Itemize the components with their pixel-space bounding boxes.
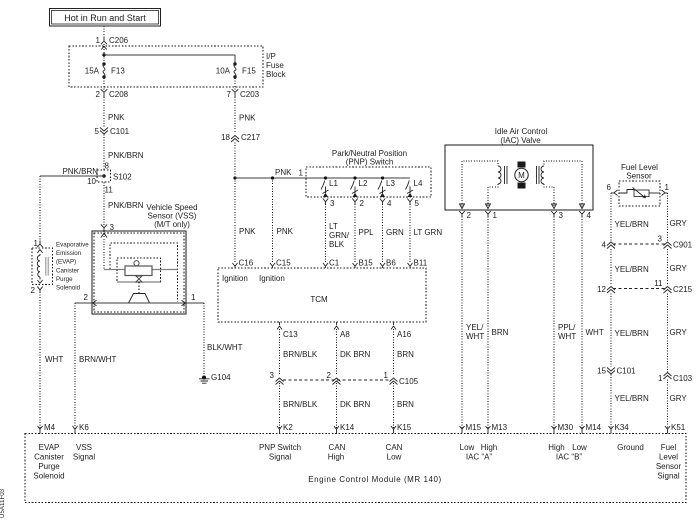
fuel level sensor box (619, 181, 660, 206)
VSS pickup element (125, 261, 152, 276)
svg-text:Fuse: Fuse (266, 61, 284, 70)
svg-text:C101: C101 (617, 367, 637, 376)
svg-text:Sensor: Sensor (656, 462, 682, 471)
svg-text:IAC “B”: IAC “B” (556, 453, 583, 462)
connector C206 pin 1 (96, 36, 129, 50)
svg-text:Idle Air Control: Idle Air Control (495, 127, 548, 136)
TCM pin C1 (323, 259, 340, 269)
IAC pin 2 (459, 211, 471, 220)
svg-text:LT GRN: LT GRN (414, 228, 443, 237)
svg-text:G104: G104 (211, 373, 231, 382)
svg-text:YEL/BRN: YEL/BRN (615, 329, 649, 338)
svg-text:(M/T only): (M/T only) (154, 220, 190, 229)
wire YEL/WHT IAC 2 to M15 (462, 217, 484, 430)
svg-text:(PNP) Switch: (PNP) Switch (346, 158, 394, 167)
svg-text:High: High (481, 443, 497, 452)
ground G104 (199, 373, 231, 383)
svg-text:BRN/BLK: BRN/BLK (283, 400, 318, 409)
wire PNK/BRN below C101 (104, 135, 144, 171)
wire BRN/BLK C13 to K2 (280, 329, 318, 429)
svg-text:3: 3 (658, 235, 663, 244)
wire branch S102 to EVAP solenoid (40, 167, 104, 244)
wire DK BRN A8 to K14 (337, 329, 371, 429)
svg-text:C101: C101 (110, 127, 130, 136)
C105 pin 3 (270, 371, 284, 385)
IAC right winding circuit (537, 161, 585, 209)
svg-text:PNK/BRN: PNK/BRN (108, 151, 144, 160)
svg-text:Purge: Purge (56, 276, 73, 283)
PNP pin 4 (380, 199, 392, 209)
svg-text:YEL/BRN: YEL/BRN (615, 265, 649, 274)
ECM label CAN High (328, 443, 346, 462)
svg-text:12: 12 (597, 285, 606, 294)
svg-text:1: 1 (191, 293, 196, 302)
svg-text:WHT: WHT (45, 355, 63, 364)
wire PNK below C208 (104, 97, 125, 127)
wire F15 to C203 (234, 78, 236, 91)
svg-text:Emission: Emission (56, 250, 82, 257)
svg-text:Hot in Run and Start: Hot in Run and Start (64, 13, 146, 23)
TCM pin B6 (380, 259, 396, 269)
Park/Neutral Position (PNP) Switch title (332, 149, 407, 167)
svg-text:PNK: PNK (108, 113, 125, 122)
ECM pin K14 (334, 423, 355, 434)
wire BRN IAC 1 to M13 (488, 217, 509, 430)
svg-text:K2: K2 (283, 423, 293, 432)
svg-text:M30: M30 (558, 423, 574, 432)
svg-text:PPL: PPL (359, 228, 375, 237)
C215 pin 11 (654, 279, 692, 294)
VSS bottom wire pins 2 and 1 (84, 293, 196, 306)
svg-text:(EVAP): (EVAP) (56, 259, 76, 266)
VSS sensor supply line (104, 269, 178, 271)
svg-text:C901: C901 (673, 241, 693, 250)
svg-text:BRN: BRN (492, 328, 509, 337)
VSS pin 3 (101, 223, 115, 232)
C901 pin 3 (658, 235, 693, 250)
fuel sensor pin 6 (607, 183, 618, 196)
svg-text:WHT: WHT (586, 328, 604, 337)
svg-text:IAC “A”: IAC “A” (466, 453, 493, 462)
node junction to C15 branch (271, 176, 274, 179)
ECM label EVAP Canister Purge Solenoid (33, 443, 64, 481)
ECM label Ground (617, 443, 644, 452)
svg-text:WHT: WHT (466, 332, 484, 341)
svg-text:4: 4 (587, 211, 592, 220)
svg-text:Ignition: Ignition (222, 274, 248, 283)
ECM label High Low IAC B (548, 443, 587, 462)
idle air control IAC valve box (445, 145, 593, 210)
ECM pin K15 (391, 423, 412, 434)
connector C215 row (613, 288, 665, 290)
svg-text:C13: C13 (283, 330, 298, 339)
svg-text:GRN/: GRN/ (329, 231, 350, 240)
connector C101 pin 5 (95, 127, 130, 136)
wire YEL/BRN C101 to K34 (611, 375, 649, 430)
fuel sensor pin 1 (662, 183, 670, 196)
switch L4 (406, 179, 423, 197)
wire GRY C103 to K51 (668, 380, 688, 430)
svg-text:C103: C103 (673, 374, 693, 383)
VSS pickup dashed box (117, 258, 161, 282)
wire PNK to PNP switch (235, 168, 410, 178)
svg-text:BRN: BRN (397, 400, 414, 409)
svg-text:Block: Block (266, 70, 287, 79)
wire VSS pin2 to ECM K6 (75, 303, 116, 429)
svg-text:BRN/WHT: BRN/WHT (79, 355, 116, 364)
VSS rotor trapezoid (129, 294, 150, 304)
wire PNK to TCM C16 (235, 178, 256, 263)
svg-text:6: 6 (607, 183, 612, 192)
IAC pin 4 (579, 211, 591, 220)
svg-text:DK BRN: DK BRN (340, 350, 370, 359)
Idle Air Control (IAC) Valve title (495, 127, 548, 145)
svg-text:EVAP: EVAP (39, 443, 60, 452)
svg-text:PNK: PNK (239, 227, 256, 236)
svg-text:C215: C215 (673, 285, 693, 294)
svg-text:15A: 15A (85, 67, 100, 76)
ECM pin M13 (486, 423, 508, 434)
svg-text:GRY: GRY (670, 264, 688, 273)
ECM pin M14 (580, 423, 602, 434)
wire from Hot box to C206 (103, 26, 105, 38)
svg-text:5: 5 (415, 199, 420, 208)
svg-text:LT: LT (329, 222, 338, 231)
svg-text:PNK: PNK (239, 114, 256, 123)
ECM title Engine Control Module (MR 140) (308, 475, 441, 484)
svg-text:C15: C15 (276, 259, 291, 268)
svg-text:L4: L4 (414, 179, 423, 188)
svg-text:M14: M14 (586, 423, 602, 432)
connector C208 pin 2 (96, 89, 129, 99)
TCM pin B11 (408, 259, 428, 269)
svg-text:PNK: PNK (275, 168, 292, 177)
svg-text:1: 1 (658, 374, 663, 383)
wire junction to F13 (103, 55, 105, 63)
svg-text:PPL/: PPL/ (558, 323, 576, 332)
ECM label Low High IAC A (460, 443, 498, 462)
svg-text:CAN: CAN (386, 443, 403, 452)
svg-text:BLK: BLK (329, 240, 345, 249)
svg-text:(IAC) Valve: (IAC) Valve (500, 136, 541, 145)
svg-text:A8: A8 (340, 330, 350, 339)
switch L1 (321, 176, 338, 197)
svg-text:F15: F15 (242, 67, 256, 76)
C105 pin 1 (384, 371, 419, 386)
svg-text:4: 4 (387, 199, 392, 208)
ECM pin K2 (277, 423, 293, 434)
wire VSS pin1 BLK/WHT to ground (186, 303, 243, 375)
svg-text:2: 2 (467, 211, 472, 220)
svg-text:C208: C208 (109, 90, 129, 99)
PNP pin 5 (407, 199, 419, 209)
svg-text:1: 1 (384, 371, 389, 380)
IAC left winding circuit (460, 161, 508, 209)
fuse F15 10A (216, 62, 257, 78)
C105 pin 2 (327, 371, 341, 385)
svg-text:Purge: Purge (38, 462, 60, 471)
svg-text:18: 18 (221, 133, 230, 142)
ECM pin K6 (73, 423, 90, 434)
wire YEL/BRN C215 to C101 (611, 294, 649, 368)
svg-text:L2: L2 (359, 179, 368, 188)
svg-text:Low: Low (572, 443, 587, 452)
svg-text:10A: 10A (216, 67, 231, 76)
svg-text:GRY: GRY (670, 328, 688, 337)
svg-text:M15: M15 (466, 423, 482, 432)
PNP switch dashed box (306, 167, 431, 197)
svg-text:K15: K15 (397, 423, 412, 432)
wire C206 into fuse block (103, 44, 105, 54)
connector C203 pin 7 (227, 89, 260, 99)
svg-text:Solenoid: Solenoid (33, 472, 64, 481)
wire LT GRN/BLK to TCM C1 (326, 204, 350, 263)
wire bus inside fuse block to F15 (104, 55, 235, 63)
svg-text:A16: A16 (397, 330, 412, 339)
svg-text:BLK/WHT: BLK/WHT (207, 343, 243, 352)
TCM box (218, 268, 426, 322)
svg-text:Low: Low (460, 443, 475, 452)
svg-text:11: 11 (654, 279, 663, 288)
connector C103 pin 1 (658, 373, 693, 384)
wire WHT IAC 4 to M14 (582, 217, 604, 430)
svg-text:YEL/: YEL/ (466, 323, 484, 332)
svg-text:7: 7 (227, 90, 232, 99)
ECM label CAN Low (386, 443, 403, 462)
svg-text:C203: C203 (240, 90, 260, 99)
svg-text:YEL/BRN: YEL/BRN (615, 220, 649, 229)
IAC motor M (515, 162, 528, 189)
TCM pin B15 (353, 259, 374, 269)
svg-text:WHT: WHT (558, 332, 576, 341)
svg-text:K6: K6 (79, 423, 89, 432)
connector C217 pin 18 (221, 133, 261, 142)
svg-text:2: 2 (84, 293, 89, 302)
wire BRN A16 to K15 (394, 329, 415, 429)
IAC pin 3 (551, 211, 563, 220)
wire WHT from EVAP to ECM M4 (40, 292, 63, 429)
svg-text:Signal: Signal (269, 453, 291, 462)
svg-text:GRY: GRY (670, 394, 688, 403)
svg-text:1: 1 (34, 239, 39, 248)
svg-text:1: 1 (299, 169, 304, 178)
switch L3 (378, 176, 395, 197)
ECM label Fuel Level Sensor Signal (656, 443, 682, 481)
connector C901 row (613, 243, 665, 245)
svg-text:C16: C16 (239, 259, 254, 268)
wire PPL/WHT IAC 3 to M30 (554, 217, 576, 430)
svg-text:VSS: VSS (76, 443, 92, 452)
wire LT GRN to TCM B11 (410, 204, 442, 263)
svg-text:Signal: Signal (73, 453, 95, 462)
svg-text:BRN: BRN (397, 350, 414, 359)
svg-text:Low: Low (387, 453, 402, 462)
wire YEL/BRN C901 to C215 (611, 249, 649, 285)
svg-text:4: 4 (602, 241, 607, 250)
TCM pin C15 (270, 259, 291, 269)
svg-text:Solenoid: Solenoid (56, 285, 81, 292)
vehicle speed sensor VSS box (92, 231, 186, 314)
svg-text:1: 1 (493, 211, 498, 220)
svg-text:3: 3 (559, 211, 564, 220)
svg-text:High: High (548, 443, 564, 452)
svg-text:TCM: TCM (310, 295, 328, 304)
svg-text:Level: Level (659, 453, 678, 462)
svg-text:I/P: I/P (266, 52, 276, 61)
svg-text:B6: B6 (386, 259, 396, 268)
svg-text:Evaporative: Evaporative (56, 242, 89, 249)
svg-text:K34: K34 (615, 423, 630, 432)
wire GRY C215 to C103 (668, 294, 688, 375)
svg-text:PNK/BRN: PNK/BRN (108, 201, 144, 210)
VSS internal feed wire with arrow (101, 231, 107, 269)
svg-text:B15: B15 (359, 259, 374, 268)
wire GRN to TCM B6 (383, 204, 405, 263)
I/P Fuse Block dashed box (69, 46, 287, 87)
wire PNK to TCM C15 (273, 178, 294, 263)
svg-text:2: 2 (31, 286, 36, 295)
PNP pin 3 (323, 199, 335, 209)
svg-text:C105: C105 (399, 377, 419, 386)
figure number U5A11F03 (0, 488, 6, 518)
PNP pin 2 (352, 199, 364, 209)
svg-text:L3: L3 (386, 179, 395, 188)
svg-text:M4: M4 (44, 423, 56, 432)
TCM pin A16 (391, 322, 412, 339)
C215 pin 12 (597, 285, 615, 294)
svg-text:L1: L1 (329, 179, 338, 188)
svg-text:F13: F13 (111, 67, 125, 76)
wire PPL to TCM B15 (355, 204, 374, 263)
svg-text:M13: M13 (492, 423, 508, 432)
svg-text:2: 2 (327, 371, 332, 380)
IAC pin 1 (485, 211, 497, 220)
EVAP canister purge solenoid pin 1 (34, 239, 43, 253)
node junction at fuse block feed (102, 53, 105, 56)
wire YEL/BRN sensor to C901 (611, 193, 649, 241)
svg-text:3: 3 (330, 199, 335, 208)
wire F13 to C208 (103, 78, 105, 91)
svg-text:GRY: GRY (670, 219, 688, 228)
engine control module ECM box (25, 434, 686, 503)
svg-text:CAN: CAN (329, 443, 346, 452)
Fuel Level Sensor title (621, 163, 658, 181)
svg-text:K51: K51 (671, 423, 686, 432)
EVAP canister purge solenoid (32, 242, 89, 292)
svg-text:Signal: Signal (657, 472, 679, 481)
VSS hourglass valve (136, 276, 142, 293)
svg-text:PNK: PNK (277, 227, 294, 236)
svg-text:10: 10 (87, 177, 96, 186)
ECM label VSS Signal (73, 443, 95, 462)
svg-text:GRN: GRN (386, 228, 404, 237)
svg-text:Canister: Canister (56, 267, 79, 274)
svg-text:PNP Switch: PNP Switch (259, 443, 301, 452)
power source box "Hot in Run and Start" (50, 9, 161, 27)
wire PNK below C203 (235, 97, 256, 133)
svg-text:1: 1 (96, 36, 101, 45)
svg-text:BRN/BLK: BRN/BLK (283, 350, 318, 359)
TCM pin A8 (334, 322, 350, 339)
ECM pin M30 (552, 423, 574, 434)
svg-text:DK BRN: DK BRN (340, 400, 370, 409)
connector C105 row (283, 379, 390, 381)
svg-text:U5A11F03: U5A11F03 (0, 488, 6, 518)
svg-text:Ground: Ground (617, 443, 644, 452)
svg-text:S102: S102 (113, 173, 132, 182)
svg-text:2: 2 (96, 90, 101, 99)
svg-text:Sensor: Sensor (626, 172, 652, 181)
svg-text:B11: B11 (414, 259, 428, 268)
svg-text:Fuel: Fuel (661, 443, 677, 452)
ECM pin K34 (609, 423, 630, 434)
svg-text:3: 3 (270, 371, 275, 380)
Vehicle Speed Sensor title (146, 203, 197, 229)
switch L2 (351, 176, 368, 197)
wire C217 down to junction (234, 143, 236, 179)
svg-text:8: 8 (105, 162, 110, 171)
svg-text:1: 1 (665, 183, 670, 192)
TCM pin C16 (233, 259, 254, 269)
ECM pin M15 (460, 423, 482, 434)
ECM pin K51 (665, 423, 686, 434)
svg-text:YEL/BRN: YEL/BRN (615, 394, 649, 403)
wire PNK/BRN below S102 (104, 183, 144, 226)
svg-text:2: 2 (360, 199, 365, 208)
wire GRY C901 to C215 (668, 249, 688, 285)
node junction at PNK feed (233, 176, 236, 179)
svg-text:11: 11 (105, 186, 114, 195)
EVAP pin 2 (31, 280, 43, 295)
VSS inner dashed shield box (110, 243, 178, 302)
svg-text:Canister: Canister (34, 453, 64, 462)
splice S102 (87, 162, 132, 195)
fuse F13 15A (85, 62, 126, 78)
connector C101 pin 15 (597, 367, 636, 376)
wire GRY sensor to C901 (665, 193, 687, 241)
svg-text:K14: K14 (340, 423, 355, 432)
svg-text:5: 5 (95, 127, 100, 136)
svg-text:PNK/BRN: PNK/BRN (62, 167, 98, 176)
svg-text:Ignition: Ignition (259, 274, 285, 283)
C901 pin 4 (602, 241, 615, 250)
svg-text:C206: C206 (109, 36, 129, 45)
svg-text:M: M (518, 171, 525, 180)
svg-text:15: 15 (597, 367, 606, 376)
svg-text:High: High (328, 453, 344, 462)
svg-text:C1: C1 (329, 259, 340, 268)
svg-text:C217: C217 (241, 133, 261, 142)
svg-text:Engine Control Module (MR 140): Engine Control Module (MR 140) (308, 475, 441, 484)
TCM pin C13 (277, 322, 298, 339)
ECM pin M4 (38, 423, 56, 434)
ECM label PNP Switch Signal (259, 443, 301, 462)
